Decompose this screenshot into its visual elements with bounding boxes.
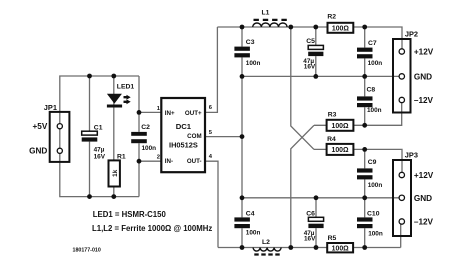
svg-text:OUT-: OUT- bbox=[187, 158, 202, 165]
svg-text:LED1: LED1 bbox=[117, 84, 135, 91]
svg-text:IN-: IN- bbox=[165, 158, 173, 165]
svg-text:C1: C1 bbox=[94, 125, 103, 132]
svg-text:–12V: –12V bbox=[414, 96, 434, 105]
wire C10 column bbox=[364, 198, 366, 248]
wire DC1 pin4 to bottom rail bbox=[205, 161, 218, 247]
svg-text:R2: R2 bbox=[327, 14, 336, 21]
svg-text:2: 2 bbox=[157, 155, 160, 161]
svg-text:180177-010: 180177-010 bbox=[73, 248, 101, 254]
svg-text:GND: GND bbox=[414, 194, 432, 203]
resistor R2 bbox=[327, 14, 353, 33]
svg-text:100n: 100n bbox=[367, 107, 382, 114]
wire C5 column bbox=[315, 27, 317, 76]
svg-text:C8: C8 bbox=[367, 87, 376, 94]
junction node pin2/C2 bbox=[137, 159, 142, 164]
JP1 pin +5V bbox=[57, 124, 62, 129]
wire JP1 GND bottom rail bbox=[60, 112, 139, 197]
svg-text:JP2: JP2 bbox=[405, 29, 418, 38]
junction node C1 bottom bbox=[87, 194, 92, 199]
svg-text:C2: C2 bbox=[141, 124, 150, 131]
wire lower GND rail bbox=[242, 197, 399, 199]
junction node COM / center bbox=[240, 134, 245, 139]
inductor L2 bbox=[253, 239, 281, 255]
svg-text:C4: C4 bbox=[246, 210, 255, 217]
svg-text:R4: R4 bbox=[327, 136, 336, 143]
JP3 pin GND bbox=[399, 195, 404, 200]
JP3 pin +12V bbox=[399, 172, 404, 177]
svg-text:JP1: JP1 bbox=[44, 103, 57, 112]
junction node GND1 / center bbox=[240, 74, 245, 79]
junction node top rail / C3 bbox=[240, 25, 245, 30]
resistor R3 bbox=[327, 112, 354, 131]
svg-text:C6: C6 bbox=[306, 211, 315, 218]
svg-text:LED1 = HSMR-C150: LED1 = HSMR-C150 bbox=[93, 210, 167, 219]
svg-text:+12V: +12V bbox=[414, 171, 434, 180]
svg-text:L2: L2 bbox=[262, 239, 270, 246]
svg-text:100n: 100n bbox=[246, 60, 261, 67]
connector JP1 bbox=[50, 112, 70, 162]
svg-text:C5: C5 bbox=[306, 38, 315, 45]
svg-text:R3: R3 bbox=[328, 112, 337, 119]
svg-text:C3: C3 bbox=[246, 39, 255, 46]
wire DC1 pin6 to top rail bbox=[205, 27, 217, 112]
junction node pin1/C2 bbox=[137, 110, 142, 115]
svg-text:GND: GND bbox=[414, 72, 432, 81]
wire C2 / input column bbox=[138, 76, 140, 197]
junction node top rail / C5 bbox=[313, 25, 318, 30]
JP3 pin -12V bbox=[399, 219, 404, 224]
wire DC1 pin1 bbox=[139, 111, 162, 113]
junction node C1 top bbox=[87, 74, 92, 79]
svg-text:16V: 16V bbox=[94, 154, 106, 161]
capacitor C9 bbox=[357, 159, 382, 189]
wire C9 column bbox=[364, 149, 366, 197]
svg-text:–12V: –12V bbox=[414, 218, 434, 227]
junction node top rail / C7 bbox=[362, 25, 367, 30]
wire DC1 pin2 bbox=[139, 160, 162, 162]
LED LED1 bbox=[107, 84, 134, 108]
wire C6 column bbox=[315, 198, 317, 248]
wire top +12V rail bbox=[217, 27, 402, 49]
svg-text:100Ω: 100Ω bbox=[331, 123, 348, 130]
svg-text:1k: 1k bbox=[112, 169, 119, 177]
capacitor C10 bbox=[357, 210, 383, 237]
junction node GND2 / C6 bbox=[314, 195, 319, 200]
capacitor C6 bbox=[304, 211, 324, 243]
svg-text:GND: GND bbox=[29, 146, 47, 155]
svg-text:IN+: IN+ bbox=[165, 110, 175, 117]
wire center common column bbox=[241, 27, 243, 248]
junction node GND2 / center bbox=[240, 195, 245, 200]
inductor L1 bbox=[253, 10, 287, 28]
junction node bottom rail / crossover bbox=[288, 245, 293, 250]
junction node GND1 / C5 bbox=[313, 74, 318, 79]
svg-text:+12V: +12V bbox=[414, 48, 434, 57]
svg-text:100n: 100n bbox=[368, 182, 383, 189]
junction node bottom rail / C6 bbox=[314, 245, 319, 250]
JP2 pin +12V bbox=[399, 49, 404, 54]
junction node GND1 / C7 C8 bbox=[362, 74, 367, 79]
svg-text:47µ: 47µ bbox=[94, 146, 105, 153]
capacitor C2 bbox=[131, 124, 156, 152]
JP1 pin GND bbox=[57, 148, 62, 153]
svg-text:DC1: DC1 bbox=[176, 122, 192, 131]
wire R3 output to JP2 -12V bbox=[314, 103, 402, 125]
wire C1 column bbox=[89, 76, 91, 197]
svg-text:16V: 16V bbox=[304, 236, 316, 243]
svg-text:JP3: JP3 bbox=[405, 151, 418, 160]
capacitor C7 bbox=[357, 40, 382, 67]
svg-text:L1,L2 = Ferrite 1000Ω @ 100MHz: L1,L2 = Ferrite 1000Ω @ 100MHz bbox=[92, 224, 212, 233]
svg-text:R5: R5 bbox=[328, 235, 337, 242]
svg-text:C7: C7 bbox=[368, 40, 377, 47]
DC-DC converter DC1 bbox=[161, 98, 205, 172]
resistor R5 bbox=[327, 235, 353, 252]
svg-text:L1: L1 bbox=[262, 10, 270, 17]
capacitor C5 bbox=[303, 38, 323, 70]
wire C7 C8 column bbox=[364, 27, 366, 125]
svg-text:IH0512S: IH0512S bbox=[169, 141, 198, 150]
svg-text:OUT+: OUT+ bbox=[185, 110, 202, 117]
svg-text:100Ω: 100Ω bbox=[332, 245, 349, 252]
resistor R4 bbox=[327, 136, 354, 155]
svg-text:100n: 100n bbox=[142, 145, 157, 152]
svg-text:COM: COM bbox=[187, 133, 201, 140]
capacitor C1 bbox=[82, 125, 106, 161]
capacitor C4 bbox=[234, 210, 260, 236]
svg-text:C9: C9 bbox=[368, 159, 377, 166]
wire upper GND rail bbox=[242, 75, 399, 77]
wire JP1 +5V up and top-left rail bbox=[60, 76, 139, 112]
connector JP2 bbox=[393, 39, 411, 113]
svg-text:100Ω: 100Ω bbox=[332, 26, 349, 33]
svg-text:+5V: +5V bbox=[33, 122, 48, 131]
wire crossover from bottom rail to R3 bbox=[291, 125, 314, 247]
svg-text:100n: 100n bbox=[368, 231, 383, 238]
junction node R1 bottom bbox=[111, 194, 116, 199]
wire crossover from top rail to R4 bbox=[291, 27, 314, 149]
wire LED/R1 column bbox=[113, 76, 115, 197]
svg-text:100n: 100n bbox=[246, 229, 261, 236]
wire DC1 COM pin5 bbox=[205, 136, 242, 138]
JP2 pin -12V bbox=[399, 97, 404, 102]
junction node GND2 / C9 C10 bbox=[362, 195, 367, 200]
JP2 pin GND bbox=[399, 74, 404, 79]
svg-text:R1: R1 bbox=[117, 154, 126, 161]
junction node R4 / C9 bbox=[362, 147, 367, 152]
capacitor C8 bbox=[357, 87, 382, 115]
svg-text:100Ω: 100Ω bbox=[331, 147, 348, 154]
svg-text:C10: C10 bbox=[367, 210, 380, 217]
resistor R1 bbox=[109, 154, 126, 187]
wire bottom -12V rail bbox=[218, 222, 401, 248]
svg-text:100n: 100n bbox=[368, 60, 383, 67]
junction node top rail / crossover bbox=[288, 25, 293, 30]
junction node LED top bbox=[111, 74, 116, 79]
junction node R3 / C8 bbox=[362, 123, 367, 128]
junction node bottom rail / center bbox=[240, 245, 245, 250]
wire R4 output to JP3 +12V bbox=[314, 149, 402, 172]
junction node bottom rail / C10 R5 bbox=[362, 245, 367, 250]
connector JP3 bbox=[393, 160, 411, 236]
svg-text:16V: 16V bbox=[304, 63, 316, 70]
capacitor C3 bbox=[234, 39, 260, 67]
